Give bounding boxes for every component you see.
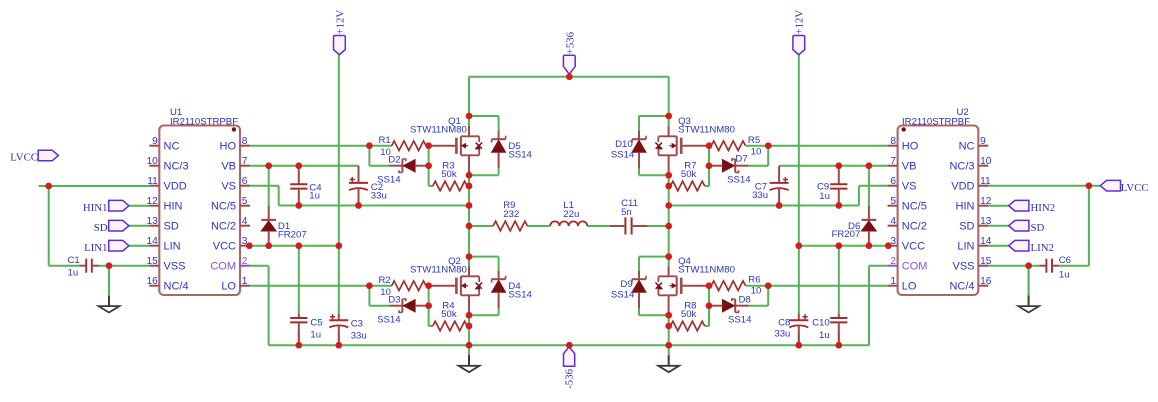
capacitor C5: [290, 314, 307, 346]
svg-text:15: 15: [980, 256, 992, 267]
svg-text:SD: SD: [94, 222, 108, 234]
svg-text:10: 10: [751, 147, 762, 158]
U2 pin 14 (LIN): [957, 236, 991, 253]
svg-text:2: 2: [242, 256, 248, 267]
svg-text:STW11NM80: STW11NM80: [410, 264, 467, 275]
svg-text:16: 16: [146, 276, 158, 287]
ground (bridge right leg): [658, 355, 679, 372]
U2 pin 10 (NC/3): [949, 156, 991, 173]
svg-text:STW11NM80: STW11NM80: [410, 124, 467, 135]
svg-text:+12V: +12V: [334, 10, 346, 35]
svg-text:14: 14: [980, 236, 992, 247]
svg-text:NC: NC: [959, 141, 975, 153]
svg-text:R5: R5: [748, 135, 760, 146]
svg-text:SS14: SS14: [611, 289, 635, 300]
U1 pin 3 (VCC): [213, 236, 250, 253]
transistor Q3 STW11NM80 (mirrored): [655, 126, 709, 175]
svg-text:NC/3: NC/3: [164, 161, 189, 173]
svg-text:C3: C3: [351, 319, 363, 330]
U2 pin 16 (NC/4): [949, 276, 991, 293]
junction dots: VCC nets: [246, 242, 892, 249]
svg-text:SS14: SS14: [728, 315, 752, 326]
svg-text:+536: +536: [564, 31, 576, 54]
svg-text:SS14: SS14: [727, 175, 751, 186]
svg-text:50k: 50k: [441, 309, 457, 320]
net label LVCC (right): [1100, 180, 1148, 194]
wire: net +12V left vertical: [338, 55, 340, 314]
svg-text:1: 1: [242, 276, 248, 287]
wire: net HO1 (U1 HO to R1/D2): [250, 146, 392, 166]
svg-text:NC: NC: [164, 141, 180, 153]
transistor Q4 STW11NM80 (mirrored): [655, 266, 709, 315]
svg-text:SS14: SS14: [377, 315, 401, 326]
capacitor C2 (electrolytic): [349, 166, 368, 206]
svg-text:D8: D8: [739, 294, 751, 305]
capacitor C8 (electrolytic): [789, 314, 808, 345]
U1 pin 8 (HO): [220, 136, 251, 153]
svg-text:STW11NM80: STW11NM80: [678, 264, 735, 275]
power symbol +12V (left): [334, 10, 347, 55]
U1 pin 10 (NC/3): [146, 156, 188, 173]
wire: Q2 gate node: [429, 286, 433, 326]
diode D9 SS14: [632, 271, 646, 309]
U2 pin 1 (LO): [888, 276, 917, 293]
svg-text:R2: R2: [379, 275, 391, 286]
svg-text:HIN: HIN: [956, 201, 975, 213]
capacitor C4: [290, 166, 307, 206]
wire: U2 input stubs to net flags: [988, 206, 1008, 246]
junction dots: LVCC/VDD nets: [45, 182, 1092, 269]
U2 pin 2 (COM): [888, 256, 928, 273]
junction dots: +536 and bottom bus: [295, 73, 842, 348]
svg-text:HO: HO: [220, 141, 237, 153]
diode D8 SS14 (mirrored): [709, 299, 749, 312]
U2 pin 3 (VCC): [888, 236, 925, 253]
wire: net VCC2 (U2 VCC, D6 anode, C10, +12V): [799, 246, 888, 314]
svg-text:HIN2: HIN2: [1031, 202, 1056, 214]
svg-text:IR2110STRPBF: IR2110STRPBF: [170, 116, 238, 127]
svg-text:12: 12: [146, 196, 158, 207]
capacitor C9: [830, 166, 847, 206]
wire: net LO2 (U2 LO to R6/D8): [746, 286, 888, 306]
U2 pin 11 (VDD): [951, 176, 991, 193]
net label LIN2: [1009, 240, 1054, 254]
power symbol +12V (right): [793, 10, 806, 55]
svg-text:50k: 50k: [681, 309, 697, 320]
svg-text:1u: 1u: [309, 190, 320, 201]
svg-text:VB: VB: [221, 161, 236, 173]
diode D7 SS14 (mirrored): [709, 159, 749, 172]
U2 pin 5 (NC/5): [888, 196, 927, 213]
svg-text:232: 232: [503, 209, 519, 220]
svg-text:SS14: SS14: [377, 175, 401, 186]
svg-text:FR207: FR207: [832, 229, 861, 240]
wire: bridge left leg node (Q1 source / Q2 drain / VS / R9): [469, 169, 499, 271]
svg-text:STW11NM80: STW11NM80: [678, 124, 735, 135]
U1 pin 14 (LIN): [146, 236, 180, 253]
U2 pin 7 (VB): [888, 156, 917, 173]
U1 pin 9 (NC): [149, 136, 179, 153]
svg-text:D3: D3: [388, 295, 400, 306]
wire: net COM1 / bottom bus: [250, 266, 888, 346]
svg-text:IR2110STRPBF: IR2110STRPBF: [902, 116, 970, 127]
svg-text:NC/2: NC/2: [211, 221, 236, 233]
svg-text:D2: D2: [388, 155, 400, 166]
svg-text:1u: 1u: [68, 268, 79, 279]
svg-text:SD: SD: [959, 221, 974, 233]
U2 pin 15 (VSS): [952, 256, 991, 273]
svg-text:VS: VS: [221, 181, 236, 193]
wire: net VB1 (U1 VB, C4, C2, D1 cathode): [250, 166, 359, 206]
svg-text:6: 6: [242, 176, 248, 187]
capacitor C3 (electrolytic): [329, 314, 348, 345]
ground (left, C1/VSS1): [99, 296, 120, 313]
svg-text:1u: 1u: [310, 329, 321, 340]
resistor R6: [711, 281, 745, 291]
svg-text:NC/4: NC/4: [164, 281, 189, 293]
svg-text:NC/2: NC/2: [902, 221, 927, 233]
svg-text:LIN1: LIN1: [84, 242, 107, 254]
svg-text:22u: 22u: [563, 209, 579, 220]
power symbol +536 (top middle): [563, 31, 576, 74]
svg-text:VSS: VSS: [164, 261, 186, 273]
diode D6 FR207 (bootstrap): [862, 206, 877, 246]
svg-text:9: 9: [152, 136, 158, 147]
wire: net LO1 (U1 LO to R2/D3): [250, 286, 392, 306]
svg-text:D7: D7: [735, 154, 747, 165]
svg-text:FR207: FR207: [278, 229, 307, 240]
svg-text:C5: C5: [310, 317, 322, 328]
wire: Q4 source to bottom bus: [639, 309, 669, 346]
svg-text:50k: 50k: [441, 169, 457, 180]
svg-text:VSS: VSS: [952, 261, 974, 273]
resistor R7: [670, 181, 704, 191]
U2 pin 13 (SD): [959, 216, 992, 233]
junction dots: HO/LO gate nets: [366, 142, 772, 309]
capacitor C6: [1039, 259, 1059, 273]
wire: U1 input stubs from net flags: [129, 206, 149, 246]
svg-text:LO: LO: [902, 281, 917, 293]
wire: Q3 gate node: [705, 146, 709, 186]
op IC U1 IR2110STRPBF (gate driver): [159, 107, 240, 295]
svg-text:15: 15: [146, 256, 158, 267]
svg-text:NC/5: NC/5: [211, 201, 236, 213]
svg-text:10: 10: [146, 156, 158, 167]
wire: net VS2 (U2 VS bus to bridge right midpoint): [669, 186, 888, 206]
svg-text:+12V: +12V: [794, 10, 806, 35]
wire: bridge right leg node (Q3 source / Q4 drain / VS2 / C11): [639, 169, 669, 271]
svg-text:C6: C6: [1059, 255, 1071, 266]
junction dots: VS buses: [295, 202, 842, 209]
svg-text:COM: COM: [902, 261, 928, 273]
svg-text:SD: SD: [1031, 222, 1045, 234]
svg-text:12: 12: [980, 196, 992, 207]
resistor R5: [711, 141, 745, 151]
U1 pin 2 (COM): [210, 256, 250, 273]
svg-text:5n: 5n: [621, 207, 632, 218]
wire: net LVCC right (VDD2): [988, 186, 1100, 296]
svg-text:SS14: SS14: [508, 289, 532, 300]
junction dots: VB nets: [265, 162, 872, 169]
svg-text:10: 10: [980, 156, 992, 167]
svg-text:HIN1: HIN1: [83, 202, 108, 214]
svg-text:-536: -536: [564, 368, 576, 388]
capacitor C11: [609, 217, 647, 234]
U1 pin 4 (NC/2): [211, 216, 250, 233]
svg-text:HIN: HIN: [164, 201, 183, 213]
svg-text:SS14: SS14: [611, 149, 635, 160]
wire: net VS1 (U1 VS bus to bridge left midpoint): [250, 186, 469, 206]
svg-text:R6: R6: [748, 275, 760, 286]
U1 pin 15 (VSS): [146, 256, 185, 273]
net label SD (left): [94, 220, 129, 234]
svg-text:7: 7: [242, 156, 248, 167]
U2 pin 12 (HIN): [956, 196, 992, 213]
svg-text:LIN: LIN: [164, 241, 181, 253]
svg-text:33u: 33u: [774, 329, 790, 340]
diode D2 SS14: [389, 159, 429, 172]
net label SD (right): [1009, 220, 1045, 234]
U2 pin 8 (HO): [888, 136, 919, 153]
svg-text:C8: C8: [778, 318, 790, 329]
wire: mid-row links R9-L1-C11: [527, 225, 609, 227]
svg-text:6: 6: [890, 176, 896, 187]
diode D10 SS14: [632, 131, 646, 169]
U1 pin 11 (VDD): [147, 176, 187, 193]
wire: net +536 top bus with drain drops: [469, 77, 669, 131]
svg-text:VDD: VDD: [951, 181, 974, 193]
diode D4 SS14: [492, 271, 506, 309]
svg-text:NC/5: NC/5: [902, 201, 927, 213]
svg-text:LIN2: LIN2: [1031, 242, 1054, 254]
svg-text:5: 5: [890, 196, 896, 207]
svg-text:VCC: VCC: [213, 241, 236, 253]
svg-text:VDD: VDD: [164, 181, 187, 193]
svg-text:SD: SD: [164, 221, 179, 233]
svg-text:C1: C1: [68, 255, 80, 266]
inductor L1: [550, 221, 587, 226]
svg-text:NC/4: NC/4: [949, 281, 974, 293]
svg-text:7: 7: [890, 156, 896, 167]
wire: net VB2 (U2 VB, C9, C7, D6 cathode): [779, 166, 888, 206]
wire: Q1 gate node (R1/D2/R3 junctions): [429, 146, 433, 186]
capacitor C1: [79, 259, 99, 273]
U1 pin 5 (NC/5): [211, 196, 250, 213]
U1 pin 12 (HIN): [146, 196, 182, 213]
capacitor C10: [830, 314, 847, 346]
svg-text:C10: C10: [812, 318, 830, 329]
svg-text:HO: HO: [902, 141, 919, 153]
svg-text:1u: 1u: [819, 191, 830, 202]
svg-text:R1: R1: [379, 135, 391, 146]
transistor Q2 STW11NM80: [429, 266, 483, 315]
svg-text:COM: COM: [210, 261, 236, 273]
svg-text:14: 14: [146, 236, 158, 247]
resistor R9: [493, 221, 527, 231]
wire: ground stems: [469, 266, 1029, 356]
wire: net LVCC left (VDD1): [39, 186, 150, 296]
U1 pin 6 (VS): [221, 176, 250, 193]
svg-text:33u: 33u: [351, 330, 367, 341]
svg-text:VB: VB: [902, 161, 917, 173]
transistor Q1 STW11NM80: [429, 126, 483, 175]
wire: Q2 source to bottom bus: [469, 309, 499, 346]
net label HIN1: [83, 200, 129, 214]
diode D5 SS14: [492, 131, 506, 169]
svg-text:VCC: VCC: [902, 241, 925, 253]
svg-text:5: 5: [242, 196, 248, 207]
U2 pin 4 (NC/2): [888, 216, 927, 233]
junction dots: bridge legs: [466, 113, 672, 330]
svg-text:4: 4: [242, 216, 248, 227]
power symbol -536 (bottom middle): [564, 347, 576, 389]
wire: net +12V right vertical: [798, 55, 800, 314]
svg-text:1u: 1u: [1059, 270, 1070, 281]
svg-text:50k: 50k: [681, 169, 697, 180]
op IC U2 IR2110STRPBF (gate driver): [898, 107, 979, 295]
svg-text:LVCC: LVCC: [10, 152, 38, 164]
svg-text:1: 1: [890, 276, 896, 287]
wire: net VCC1 (U1 VCC, D1 anode, C5, +12V): [250, 246, 339, 314]
resistor R8: [670, 321, 704, 331]
svg-text:LVCC: LVCC: [1121, 182, 1149, 194]
U2 pin 9 (NC): [959, 136, 989, 153]
svg-text:10: 10: [751, 285, 762, 296]
svg-text:2: 2: [890, 256, 896, 267]
U1 pin 1 (LO): [221, 276, 250, 293]
svg-text:11: 11: [147, 176, 158, 187]
svg-text:9: 9: [980, 136, 986, 147]
svg-text:4: 4: [890, 216, 896, 227]
net label HIN2: [1009, 200, 1055, 214]
resistor R2: [392, 281, 426, 291]
svg-text:VS: VS: [902, 181, 917, 193]
ground (bridge left leg): [459, 355, 480, 372]
svg-text:13: 13: [146, 216, 158, 227]
svg-text:16: 16: [980, 276, 992, 287]
U1 pin 13 (SD): [146, 216, 178, 233]
resistor R3: [433, 181, 467, 191]
svg-text:8: 8: [890, 136, 896, 147]
resistor R4: [433, 321, 467, 331]
svg-text:SS14: SS14: [508, 149, 532, 160]
ground (right, C6/VSS2): [1018, 296, 1039, 313]
net label LIN1: [84, 240, 129, 254]
diode D1 FR207 (bootstrap): [261, 206, 276, 246]
resistor R1: [392, 141, 426, 151]
wire: net HO2 (U2 HO to R5/D7): [746, 146, 888, 166]
U2 pin 6 (VS): [888, 176, 917, 193]
wire: Q4 gate node: [705, 286, 709, 326]
svg-text:LO: LO: [221, 281, 236, 293]
svg-text:NC/3: NC/3: [949, 161, 974, 173]
svg-text:11: 11: [980, 176, 991, 187]
U1 pin 7 (VB): [221, 156, 250, 173]
svg-text:13: 13: [980, 216, 992, 227]
capacitor C7 (electrolytic): [770, 166, 789, 206]
svg-text:33u: 33u: [371, 190, 387, 201]
svg-text:1u: 1u: [819, 330, 830, 341]
svg-text:33u: 33u: [752, 190, 768, 201]
U1 pin 16 (NC/4): [146, 276, 188, 293]
svg-text:LIN: LIN: [957, 241, 974, 253]
diode D3 SS14: [389, 299, 429, 312]
svg-text:8: 8: [242, 136, 248, 147]
net label LVCC (left): [10, 150, 58, 164]
